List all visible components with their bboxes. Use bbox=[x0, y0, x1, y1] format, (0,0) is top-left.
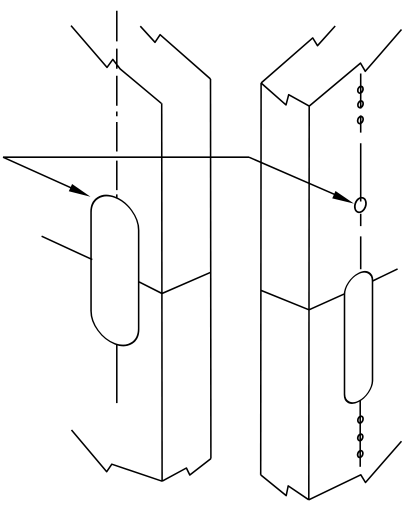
left post top edge A with break bbox=[71, 26, 161, 104]
small hole e2 bbox=[357, 100, 364, 108]
small hole e6 bbox=[357, 450, 364, 458]
right post slot (skewed obround) bbox=[345, 267, 373, 409]
left post slot (skewed obround) bbox=[91, 188, 139, 353]
left post left-face seam line (left of slot) bbox=[42, 236, 93, 259]
left arrowhead bbox=[69, 184, 91, 197]
right post top edge E with break bbox=[309, 30, 401, 107]
right arrowhead bbox=[332, 191, 354, 204]
small hole e1 bbox=[357, 86, 364, 94]
left post front corner vertical edge bbox=[161, 103, 163, 481]
left post left-face seam line (right of slot) bbox=[139, 282, 162, 294]
right post bottom break line (right face) bbox=[309, 441, 402, 500]
left post right-face seam line bbox=[162, 272, 211, 293]
arrowed hole bbox=[353, 196, 368, 214]
leader arrow shaft to right hole bbox=[249, 157, 336, 195]
right post hole centerline dashes bbox=[360, 74, 362, 270]
right post front corner vertical edge bbox=[308, 106, 310, 500]
left post top edge B with break bbox=[140, 26, 210, 79]
right post right-face seam line (left of slot) bbox=[309, 294, 345, 310]
right post centerline below slot bbox=[359, 401, 361, 467]
leader horizontal line bbox=[3, 156, 249, 158]
right post bottom break line (left face) bbox=[261, 475, 309, 500]
left post bottom break line (left face) bbox=[72, 430, 163, 481]
left post bottom break line (right face) bbox=[162, 459, 211, 482]
small hole e4 bbox=[357, 415, 364, 423]
right post top edge D with break bbox=[261, 83, 309, 106]
left post right vertical edge bbox=[210, 79, 212, 459]
left post centerline below slot bbox=[116, 345, 118, 404]
right post left vertical edge bbox=[260, 83, 262, 475]
right post top edge C with break bbox=[261, 26, 335, 83]
leader arrow shaft to left slot bbox=[3, 157, 73, 189]
small hole e5 bbox=[357, 433, 364, 441]
small hole e3 bbox=[357, 116, 364, 125]
right post right-face seam line (right of slot) bbox=[373, 269, 398, 281]
left post centerline (top dashed) bbox=[116, 11, 118, 198]
right post left-face seam line bbox=[261, 290, 309, 309]
